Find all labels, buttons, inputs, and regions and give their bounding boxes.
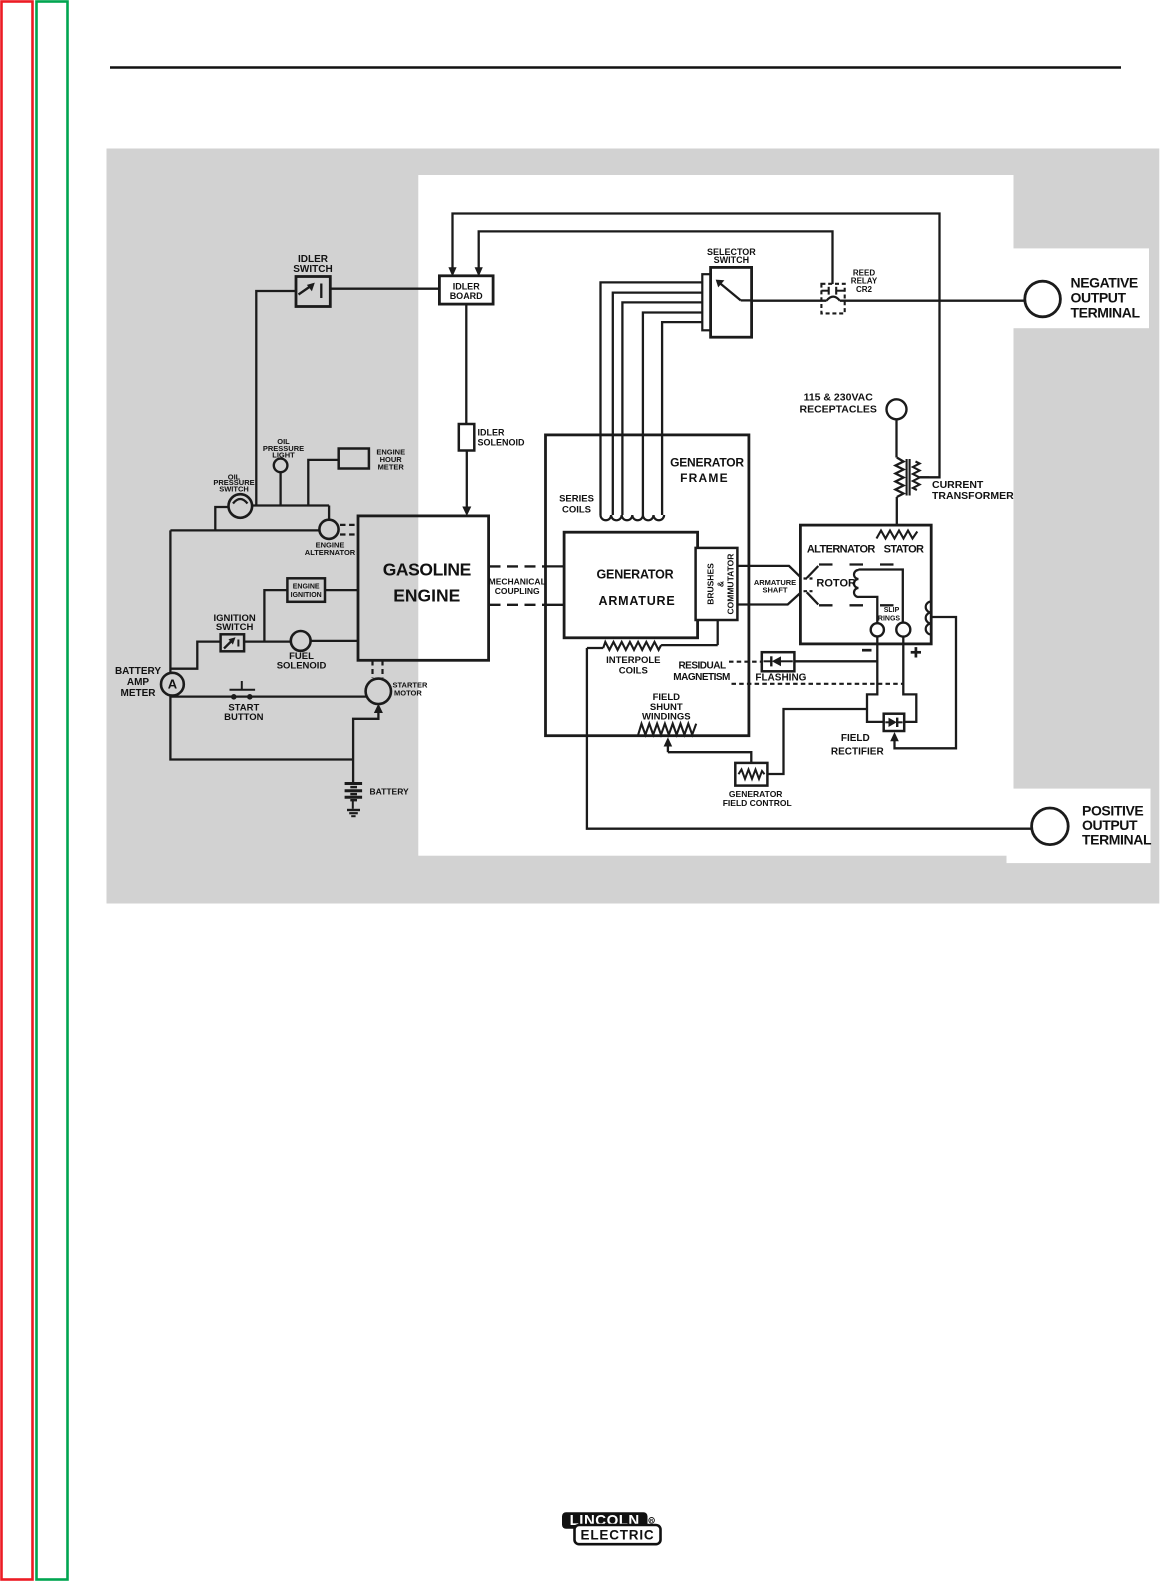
start button PB1: [230, 681, 256, 700]
wire 2 top loop: idler board to reed relay: [475, 231, 833, 284]
svg-text:SLIP: SLIP: [884, 607, 900, 614]
dashed wire residual magnetism to flashing: [729, 661, 762, 663]
svg-text:BRUSHES: BRUSHES: [706, 563, 716, 605]
positive output terminal: [1032, 808, 1069, 845]
mechanical coupling dashes: [490, 566, 565, 604]
svg-text:BATTERY: BATTERY: [115, 666, 161, 677]
svg-text:RECEPTACLES: RECEPTACLES: [799, 404, 876, 416]
svg-text:LIGHT: LIGHT: [272, 451, 295, 460]
wire to ignition switch: [170, 642, 220, 669]
negative output terminal: [1025, 281, 1061, 317]
generator armature box: [564, 532, 698, 638]
svg-text:METER: METER: [121, 688, 157, 699]
wire slip ring plus leg: [903, 637, 916, 722]
ignition switch SW2: [221, 634, 245, 651]
top rule: [110, 66, 1121, 69]
label field rectifier: [831, 733, 885, 758]
svg-text:AMP: AMP: [127, 677, 150, 688]
minus sign: [862, 649, 872, 652]
wire sensor bus: [252, 506, 329, 520]
svg-text:WINDINGS: WINDINGS: [642, 712, 691, 723]
label receptacles: [799, 391, 876, 415]
svg-text:TERMINAL: TERMINAL: [1082, 831, 1152, 847]
white label inset negative: [1013, 248, 1150, 328]
svg-text:ARMATURE: ARMATURE: [599, 594, 676, 608]
label ignition switch: [213, 613, 255, 633]
label selector switch: [707, 247, 756, 265]
svg-text:ALTERNATOR: ALTERNATOR: [807, 544, 876, 556]
arrow wire into frame bottom: [664, 737, 752, 763]
wire oil pressure switch stub: [215, 507, 228, 530]
label idler switch: [293, 254, 332, 275]
svg-text:MOTOR: MOTOR: [394, 689, 422, 698]
svg-text:SWITCH: SWITCH: [216, 622, 254, 633]
svg-text:ENGINE: ENGINE: [293, 583, 320, 590]
label positive output terminal: [1082, 802, 1152, 847]
white label inset positive: [1007, 789, 1151, 864]
label interpole coils: [606, 655, 660, 676]
label A meter: [168, 677, 178, 692]
selector switch wire 4: [643, 313, 702, 516]
label battery amp meter: [115, 666, 161, 699]
wire reed relay to negative terminal: [840, 300, 1025, 302]
starter motor M2: [366, 679, 391, 704]
wire slip ring minus leg: [867, 636, 884, 722]
idler solenoid L1: [459, 424, 475, 451]
label start button: [224, 702, 264, 723]
wire ignition switch to fuel solenoid: [244, 640, 291, 642]
svg-text:A: A: [168, 677, 178, 692]
wire left rail bottom: [170, 696, 353, 760]
selector switch wire 3: [622, 302, 702, 515]
svg-text:IDLER: IDLER: [453, 282, 481, 292]
wire 1 top loop: idler board to current transformer: [448, 214, 939, 478]
svg-text:CR2: CR2: [856, 285, 873, 294]
slip ring left: [871, 623, 884, 636]
label oil pressure light: [263, 437, 304, 460]
engine hour meter M1: [308, 449, 369, 506]
wire idler switch to idler board: [330, 288, 439, 290]
receptacle circle node: [887, 399, 907, 457]
svg-text:ALTERNATOR: ALTERNATOR: [305, 548, 356, 557]
slip ring right: [896, 623, 910, 637]
wire armature left drop to bottom rail: [587, 648, 1032, 829]
label engine ignition: [291, 583, 322, 599]
oil pressure switch PS1: [229, 494, 253, 518]
gasoline engine block: [358, 516, 489, 660]
engine alternator G1: [319, 520, 357, 539]
svg-text:FIELD: FIELD: [841, 733, 870, 744]
svg-text:FIELD CONTROL: FIELD CONTROL: [723, 798, 792, 808]
current transformer T1: [896, 458, 930, 525]
svg-text:FLASHING: FLASHING: [755, 672, 806, 683]
label slip rings: [878, 607, 901, 622]
green margin bar: [37, 2, 68, 1580]
svg-text:RECTIFIER: RECTIFIER: [831, 747, 885, 758]
svg-text:NEGATIVE: NEGATIVE: [1071, 275, 1138, 291]
svg-text:OUTPUT: OUTPUT: [1071, 290, 1127, 306]
alternator stator box: [800, 525, 931, 644]
series coils L3: [601, 515, 665, 520]
stator right winding L8: [926, 602, 932, 635]
label engine hour meter: [376, 448, 405, 472]
svg-text:COILS: COILS: [619, 665, 648, 676]
selector switch wire 1: [601, 282, 703, 515]
svg-text:TERMINAL: TERMINAL: [1071, 304, 1141, 320]
red margin bar: [2, 2, 33, 1580]
svg-text:FRAME: FRAME: [680, 471, 729, 485]
svg-text:MECHANICAL: MECHANICAL: [489, 576, 546, 586]
svg-text:GENERATOR: GENERATOR: [597, 567, 674, 581]
label idler board: [450, 282, 483, 302]
svg-text:MAGNETISM: MAGNETISM: [673, 672, 730, 683]
stator top winding L6: [877, 531, 918, 539]
label starter motor: [393, 680, 428, 697]
idler switch SW1: [296, 277, 330, 307]
svg-text:BATTERY: BATTERY: [370, 786, 410, 796]
svg-text:ENGINE: ENGINE: [393, 585, 460, 605]
wire field control to rectifier rail: [767, 709, 867, 774]
label generator armature: [597, 567, 676, 608]
ground: [347, 801, 360, 816]
wire start button row: [170, 695, 366, 697]
rotor winding L7: [854, 570, 903, 624]
svg-text:IDLER: IDLER: [478, 428, 506, 438]
label idler solenoid: [478, 428, 526, 448]
selector switch SW3: [702, 267, 751, 337]
label reed relay CR2: [851, 268, 878, 293]
generator field control R1: [735, 763, 767, 786]
generator frame box: [546, 435, 749, 736]
label field shunt windings: [642, 692, 691, 723]
armature shaft wires: [737, 566, 800, 605]
interpole coils L4: [587, 621, 718, 650]
svg-text:COUPLING: COUPLING: [495, 586, 540, 596]
plus sign: [911, 647, 921, 657]
wire idler solenoid to engine with arrow: [462, 451, 471, 517]
svg-text:115 & 230VAC: 115 & 230VAC: [804, 391, 874, 403]
svg-text:SERIES: SERIES: [559, 494, 594, 505]
label mechanical coupling: [489, 576, 546, 596]
svg-text:&: &: [716, 581, 726, 587]
label oil pressure switch: [213, 472, 254, 493]
svg-text:ROTOR: ROTOR: [816, 577, 856, 589]
battery BT1: [345, 784, 363, 801]
svg-text:IGNITION: IGNITION: [291, 592, 322, 599]
rotor dashed outline: [807, 565, 898, 606]
wire idler board to idler solenoid: [465, 304, 467, 424]
label current transformer: [932, 479, 1014, 502]
label fuel solenoid: [277, 651, 327, 672]
svg-text:GENERATOR: GENERATOR: [670, 456, 744, 470]
battery amp meter A1: [161, 673, 184, 696]
svg-text:STATOR: STATOR: [884, 544, 924, 556]
label generator field control: [723, 789, 792, 808]
flashing diode D1: [762, 652, 795, 671]
wire left rail top: [170, 530, 319, 672]
label brushes and commutator: [706, 554, 736, 615]
label alternator stator: [807, 544, 924, 556]
svg-text:COMMUTATOR: COMMUTATOR: [726, 554, 736, 615]
oil pressure light PL1: [274, 459, 288, 506]
label rotor: [816, 577, 856, 589]
selector switch wire 5: [662, 322, 702, 515]
dashed wire residual magnetism long: [732, 683, 904, 685]
svg-text:SHAFT: SHAFT: [763, 585, 788, 594]
Lincoln Electric logo: [562, 1512, 661, 1544]
svg-text:RESIDUAL: RESIDUAL: [678, 660, 726, 671]
label armature shaft: [754, 578, 796, 595]
fuel solenoid L2: [291, 631, 358, 651]
wire idler switch left to bus: [256, 291, 296, 506]
starter motor coupling dashes: [373, 661, 383, 679]
reed relay CR2: [821, 284, 844, 314]
engine ignition box U2: [264, 578, 358, 641]
svg-text:COILS: COILS: [562, 504, 591, 515]
label series coils: [559, 494, 594, 516]
svg-text:SOLENOID: SOLENOID: [277, 661, 327, 672]
svg-text:ELECTRIC: ELECTRIC: [581, 1528, 655, 1543]
armature shaft dashes: [804, 579, 813, 592]
selector switch wire 2: [613, 293, 703, 515]
white diagram inset: [418, 175, 1013, 856]
svg-text:SWITCH: SWITCH: [219, 485, 249, 494]
wire flashing to minus rail: [794, 660, 877, 662]
svg-text:METER: METER: [378, 462, 405, 471]
label generator frame: [670, 456, 744, 485]
svg-text:TRANSFORMER: TRANSFORMER: [932, 490, 1014, 502]
field rectifier D2: [884, 714, 905, 731]
label flashing: [755, 672, 806, 683]
wire battery to starter motor with arrow: [353, 704, 383, 784]
label residual magnetism: [673, 660, 730, 683]
svg-text:RINGS: RINGS: [878, 616, 901, 623]
field shunt windings L5: [638, 724, 696, 735]
label battery: [370, 786, 410, 796]
wire selector switch to reed relay: [752, 300, 827, 302]
svg-text:BOARD: BOARD: [450, 291, 483, 301]
label engine alternator: [305, 541, 356, 558]
idler board U1: [439, 276, 493, 304]
svg-text:GASOLINE: GASOLINE: [383, 559, 471, 579]
svg-text:BUTTON: BUTTON: [224, 712, 264, 723]
brushes and commutator box: [696, 548, 738, 620]
wire stator to field rectifier: [890, 617, 956, 748]
label gasoline engine: [383, 559, 471, 605]
svg-text:SOLENOID: SOLENOID: [478, 438, 526, 448]
label negative output terminal: [1071, 275, 1141, 321]
svg-text:SWITCH: SWITCH: [293, 264, 332, 275]
svg-text:SWITCH: SWITCH: [714, 255, 750, 265]
gray panel: [107, 149, 1160, 904]
